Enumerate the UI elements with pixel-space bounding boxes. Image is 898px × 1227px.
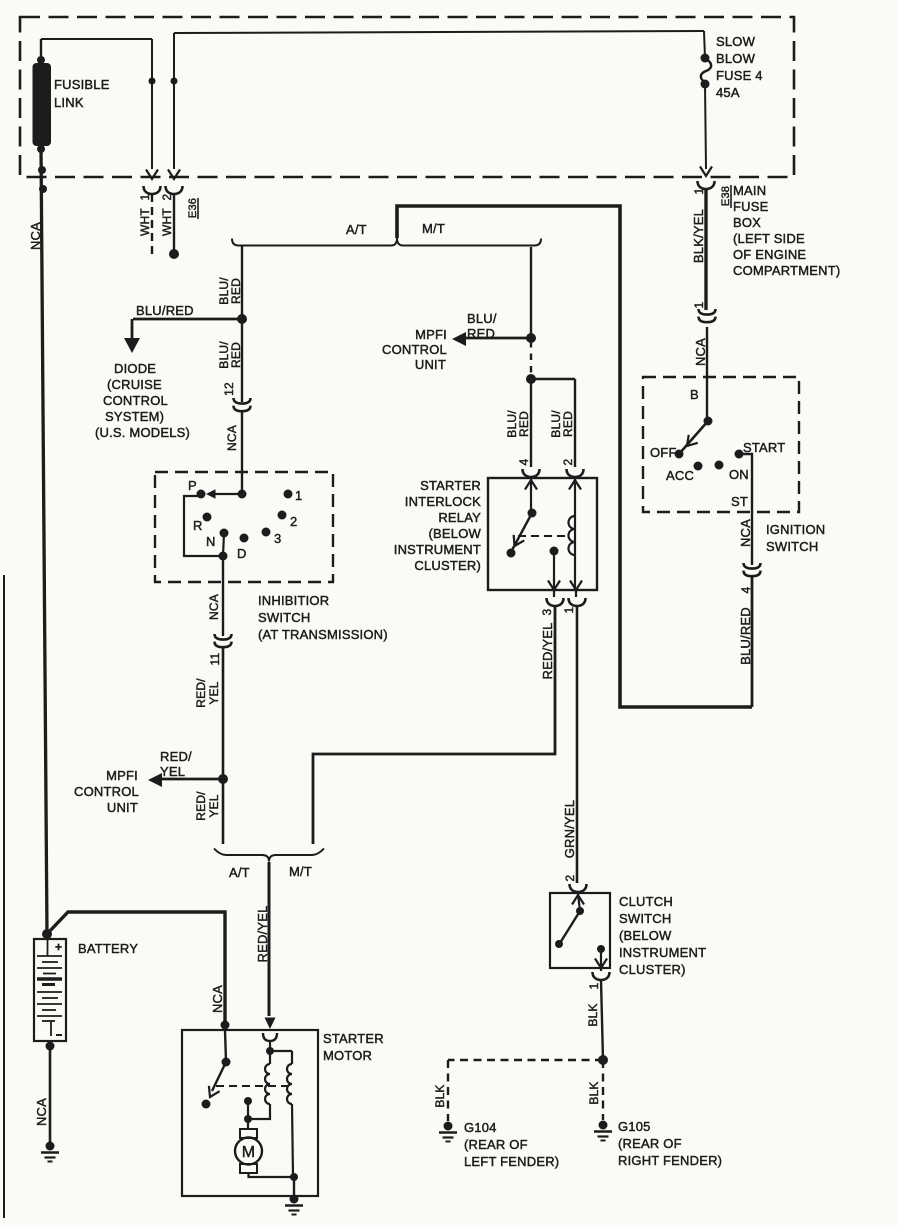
svg-text:CLUSTER): CLUSTER)	[619, 962, 686, 977]
svg-text:3: 3	[274, 531, 281, 546]
svg-text:+: +	[55, 940, 62, 954]
svg-text:RED/: RED/	[194, 791, 208, 821]
svg-text:LEFT FENDER): LEFT FENDER)	[464, 1154, 559, 1169]
svg-text:2: 2	[160, 193, 174, 200]
svg-text:NCA: NCA	[210, 985, 225, 1013]
svg-text:NCA: NCA	[207, 594, 221, 620]
svg-text:RED/YEL: RED/YEL	[255, 905, 270, 962]
svg-text:START: START	[743, 440, 785, 455]
svg-text:D: D	[237, 546, 247, 561]
svg-text:LINK: LINK	[54, 95, 84, 110]
svg-text:RED: RED	[467, 326, 495, 341]
svg-text:FUSE 4: FUSE 4	[716, 68, 763, 83]
svg-text:RED/YEL: RED/YEL	[540, 622, 555, 679]
svg-text:A/T: A/T	[346, 222, 367, 237]
svg-text:NCA: NCA	[693, 338, 708, 366]
svg-text:ON: ON	[729, 467, 749, 482]
svg-text:N: N	[206, 534, 216, 549]
svg-text:INTERLOCK: INTERLOCK	[405, 494, 481, 509]
svg-text:A/T: A/T	[229, 865, 250, 880]
svg-text:(REAR OF: (REAR OF	[618, 1136, 682, 1151]
svg-text:(BELOW: (BELOW	[429, 526, 482, 541]
svg-text:NCA: NCA	[34, 1098, 49, 1126]
svg-text:BLU/: BLU/	[467, 311, 497, 326]
svg-text:1: 1	[587, 982, 601, 989]
svg-text:1: 1	[138, 193, 152, 200]
svg-text:1: 1	[692, 301, 706, 308]
svg-text:2: 2	[563, 874, 577, 881]
svg-text:RED: RED	[229, 342, 243, 368]
svg-text:(AT TRANSMISSION): (AT TRANSMISSION)	[258, 627, 388, 642]
svg-text:RED: RED	[229, 278, 243, 304]
svg-text:YEL: YEL	[160, 764, 185, 779]
svg-text:RED/: RED/	[194, 678, 208, 708]
svg-text:OFF: OFF	[650, 445, 677, 460]
svg-text:12: 12	[222, 382, 236, 396]
svg-text:YEL: YEL	[207, 794, 221, 817]
svg-text:M/T: M/T	[289, 864, 312, 879]
svg-text:BLK/YEL: BLK/YEL	[691, 209, 706, 263]
svg-text:(BELOW: (BELOW	[619, 928, 672, 943]
svg-text:B: B	[690, 387, 699, 402]
svg-text:SWITCH: SWITCH	[258, 610, 310, 625]
svg-text:RIGHT FENDER): RIGHT FENDER)	[618, 1153, 722, 1168]
svg-text:2: 2	[561, 458, 575, 465]
svg-text:3: 3	[540, 608, 554, 615]
svg-text:SWITCH: SWITCH	[766, 539, 818, 554]
svg-text:INSTRUMENT: INSTRUMENT	[619, 945, 706, 960]
svg-text:(LEFT SIDE: (LEFT SIDE	[733, 231, 805, 246]
svg-text:MOTOR: MOTOR	[323, 1048, 372, 1063]
svg-text:IGNITION: IGNITION	[766, 522, 825, 537]
svg-text:RED/: RED/	[160, 749, 192, 764]
svg-text:BLU/RED: BLU/RED	[136, 303, 194, 318]
svg-text:INHIBITIOR: INHIBITIOR	[258, 593, 329, 608]
svg-text:YEL: YEL	[207, 681, 221, 704]
svg-text:SLOW: SLOW	[716, 34, 756, 49]
svg-text:11: 11	[208, 652, 222, 665]
svg-text:BLOW: BLOW	[716, 51, 756, 66]
svg-text:CLUTCH: CLUTCH	[619, 894, 673, 909]
svg-text:UNIT: UNIT	[415, 357, 446, 372]
svg-text:CLUSTER): CLUSTER)	[414, 558, 481, 573]
svg-text:2: 2	[290, 514, 297, 529]
svg-text:G105: G105	[618, 1119, 651, 1134]
svg-text:BLK: BLK	[587, 1081, 601, 1104]
svg-text:BLK: BLK	[433, 1084, 447, 1107]
svg-text:STARTER: STARTER	[323, 1031, 384, 1046]
svg-text:STARTER: STARTER	[420, 478, 481, 493]
svg-text:1: 1	[692, 187, 706, 194]
svg-text:ACC: ACC	[666, 468, 694, 483]
svg-text:BATTERY: BATTERY	[78, 941, 138, 956]
svg-text:NCA: NCA	[225, 425, 239, 451]
svg-text:MAIN: MAIN	[733, 183, 766, 198]
svg-text:NCA: NCA	[738, 519, 753, 547]
svg-text:BOX: BOX	[733, 215, 761, 230]
svg-text:(REAR OF: (REAR OF	[464, 1137, 528, 1152]
svg-text:M/T: M/T	[422, 221, 445, 236]
svg-text:INSTRUMENT: INSTRUMENT	[394, 542, 481, 557]
svg-text:P: P	[188, 478, 197, 493]
svg-text:CONTROL: CONTROL	[103, 393, 168, 408]
svg-text:G104: G104	[464, 1120, 497, 1135]
svg-text:CONTROL: CONTROL	[382, 342, 447, 357]
svg-text:NCA: NCA	[28, 222, 43, 250]
svg-text:RELAY: RELAY	[438, 510, 481, 525]
svg-text:WHT: WHT	[160, 208, 174, 236]
svg-text:SYSTEM): SYSTEM)	[105, 409, 164, 424]
svg-text:RED: RED	[517, 411, 531, 437]
svg-text:4: 4	[517, 458, 531, 465]
svg-text:(U.S. MODELS): (U.S. MODELS)	[95, 425, 190, 440]
svg-text:COMPARTMENT): COMPARTMENT)	[733, 263, 840, 278]
svg-text:1: 1	[562, 606, 576, 613]
svg-text:SWITCH: SWITCH	[619, 911, 671, 926]
svg-text:45A: 45A	[716, 85, 740, 100]
svg-text:UNIT: UNIT	[107, 800, 138, 815]
svg-text:CONTROL: CONTROL	[74, 784, 139, 799]
svg-text:WHT: WHT	[138, 208, 152, 236]
svg-text:BLK: BLK	[586, 1003, 600, 1026]
svg-text:DIODE: DIODE	[114, 361, 156, 376]
svg-text:OF ENGINE: OF ENGINE	[733, 247, 806, 262]
svg-text:MPFI: MPFI	[415, 327, 447, 342]
svg-text:MPFI: MPFI	[106, 768, 138, 783]
svg-text:ST: ST	[731, 494, 748, 509]
svg-text:FUSIBLE: FUSIBLE	[54, 77, 110, 92]
svg-text:R: R	[193, 518, 203, 533]
svg-text:M: M	[242, 1144, 256, 1161]
svg-text:RED: RED	[561, 411, 575, 437]
svg-text:(CRUISE: (CRUISE	[107, 377, 162, 392]
svg-text:GRN/YEL: GRN/YEL	[562, 800, 577, 858]
svg-text:1: 1	[295, 488, 302, 503]
svg-text:FUSE: FUSE	[733, 199, 769, 214]
